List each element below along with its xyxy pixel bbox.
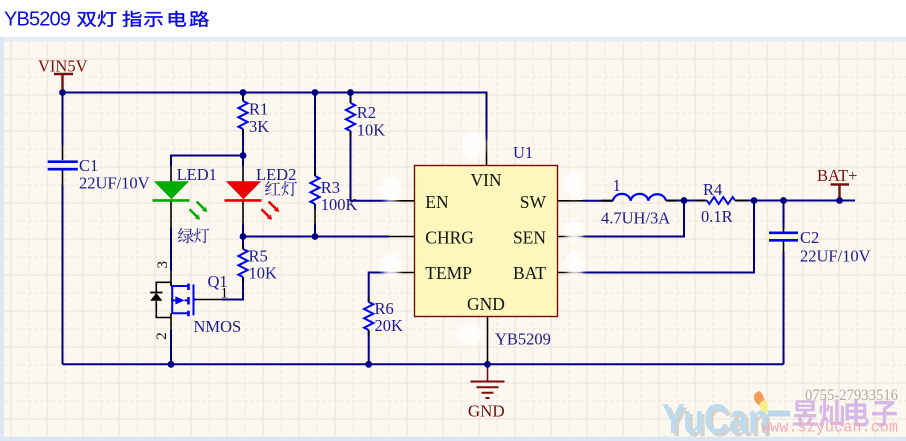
wire GND chip to rail [487, 341, 489, 364]
node LED2 cathode junction [240, 233, 247, 240]
pin stub C1 bottom [62, 171, 64, 186]
wire R4 to BAT+ right end [735, 200, 855, 202]
wire R3 branch from top rail [314, 93, 316, 177]
pin stub Q1 gate pin 1 [196, 299, 222, 301]
svg-text:SW: SW [520, 192, 547, 212]
pin stub TEMP [389, 272, 415, 274]
svg-text:2: 2 [154, 332, 170, 340]
pin ends R3 [314, 171, 316, 177]
wire SEN to inductor-R4 node [583, 201, 684, 237]
wire Q1 source to bottom rail [170, 330, 172, 364]
wire LED2 to CHRG rail [242, 224, 244, 237]
svg-text:20K: 20K [375, 316, 404, 335]
svg-text:YB5209: YB5209 [4, 9, 71, 31]
wire SW to inductor [583, 200, 613, 202]
svg-text:C1: C1 [79, 156, 98, 175]
svg-text:VIN5V: VIN5V [38, 57, 88, 76]
svg-text:C2: C2 [800, 228, 819, 247]
svg-text:NMOS: NMOS [194, 317, 242, 336]
node R6 bottom rail [365, 361, 372, 368]
node R3 bottom [312, 233, 319, 240]
pin stub VIN top [486, 140, 488, 166]
label 红灯 [265, 181, 297, 196]
wire R6 to bottom rail [368, 330, 370, 364]
pin stub C1 top [62, 146, 64, 160]
svg-text:www.szyucan.com: www.szyucan.com [761, 419, 898, 437]
pin stub SW [558, 200, 584, 202]
pin stub LED1 cathode [170, 200, 172, 228]
pin stub EN [389, 200, 415, 202]
wire R1 branch from top rail [242, 93, 244, 102]
svg-text:VIN: VIN [470, 170, 501, 190]
node VIN rail left [59, 89, 66, 96]
wire C2 to bottom rail [783, 252, 785, 364]
wire R2 branch from top rail [350, 93, 352, 104]
title chinese 双灯指示电路 [77, 11, 209, 27]
pin stub C2 bottom [783, 240, 785, 252]
node C2 top [780, 197, 787, 204]
svg-text:GND: GND [467, 294, 505, 314]
svg-text:R4: R4 [703, 180, 722, 199]
wire CHRG rail [243, 236, 389, 238]
wire R5 to gate corner [222, 277, 243, 300]
Q1 body diode [150, 282, 171, 317]
pin ends R5 [242, 244, 244, 283]
wire LED1 to Q1 drain [170, 228, 172, 271]
node inductor-R4 [681, 197, 688, 204]
wire R5 branch [242, 237, 244, 250]
wire inductor to R4 [666, 200, 705, 202]
svg-text:YB5209: YB5209 [495, 330, 551, 349]
wire R3 bottom to CHRG rail [314, 204, 316, 209]
resistor R4 [701, 180, 735, 226]
svg-text:BAT: BAT [513, 263, 546, 283]
wire BAT to R4 right node [583, 201, 754, 273]
wire R1 to LED junction [242, 129, 244, 156]
svg-text:BAT+: BAT+ [817, 166, 857, 185]
pin stub CHRG [389, 236, 415, 238]
pin stub LED1 anode [170, 166, 172, 182]
node R1-LED junction [240, 152, 247, 159]
svg-text:1: 1 [613, 176, 621, 195]
page border strips [0, 37, 906, 41]
pin ends R1 [242, 96, 244, 135]
pin ends R4 [696, 200, 748, 202]
watermark YuCan logo [662, 391, 790, 441]
wire bottom rail [63, 363, 784, 365]
svg-text:0.1R: 0.1R [701, 207, 733, 226]
svg-text:U1: U1 [513, 143, 533, 162]
wire R3 pin to CHRG rail [314, 224, 316, 237]
pin stub R3 bottom [314, 209, 316, 224]
resistor R5 [238, 247, 277, 283]
svg-text:0755-27933516: 0755-27933516 [805, 387, 898, 404]
resistor R2 [346, 103, 385, 140]
power symbol VIN5V [38, 57, 88, 93]
pin stub LED2 cathode [242, 200, 244, 224]
svg-text:LED1: LED1 [177, 165, 217, 184]
node GND rail [484, 361, 491, 368]
svg-text:SEN: SEN [513, 228, 546, 248]
pin stub BAT [558, 272, 584, 274]
svg-text:22UF/10V: 22UF/10V [79, 174, 150, 193]
svg-text:3K: 3K [249, 117, 269, 136]
svg-text:4.7UH/3A: 4.7UH/3A [601, 209, 670, 228]
svg-text:CHRG: CHRG [425, 228, 474, 248]
svg-text:22UF/10V: 22UF/10V [800, 247, 871, 266]
pin ends R6 [368, 297, 370, 336]
node Q1 source rail [168, 361, 175, 368]
wire LED2 branch down [242, 156, 244, 167]
wire LED row to LED1 [171, 156, 243, 167]
inductor pin leads [601, 200, 677, 202]
chip U1 body [415, 166, 558, 317]
node R1 top [240, 89, 247, 96]
inductor L1 [613, 194, 666, 201]
transistor Q1 NMOS [171, 284, 196, 317]
wire R2 bottom to EN [351, 131, 390, 201]
ground symbol GND [468, 364, 505, 420]
svg-text:3: 3 [155, 261, 171, 269]
power symbol BAT+ [817, 166, 857, 201]
pin stub Q1 source pin 2 [170, 318, 172, 331]
pin stub LED2 anode [242, 166, 244, 182]
pin stub Q1 drain pin 3 [170, 271, 172, 286]
wire TEMP [369, 273, 389, 303]
wire C2 top [783, 201, 785, 229]
wire top rail VIN to chip [63, 93, 487, 141]
svg-text:10K: 10K [357, 121, 386, 140]
svg-text:YuCan: YuCan [662, 395, 769, 441]
node R3 top [312, 89, 319, 96]
node R4-BAT wire [751, 197, 758, 204]
node BAT+ wire [836, 197, 843, 204]
wire left rail down to C1 [62, 93, 64, 147]
node R2 top [347, 89, 354, 96]
resistor R6 [364, 299, 403, 335]
pin ends R2 [350, 98, 352, 137]
pin stub C2 top [783, 228, 785, 232]
resistor R3 [310, 176, 357, 214]
label 绿灯 [178, 228, 209, 243]
capacitor C2 [769, 228, 871, 266]
wire C1 to bottom rail [62, 185, 64, 364]
svg-text:TEMP: TEMP [425, 263, 472, 283]
svg-text:1: 1 [221, 286, 229, 302]
capacitor C1 [48, 156, 150, 193]
svg-text:EN: EN [425, 192, 449, 212]
LED1 green [153, 181, 208, 220]
svg-text:LED2: LED2 [256, 165, 296, 184]
pin stub SEN [558, 236, 584, 238]
watermark 昱灿电子 [793, 399, 897, 427]
svg-text:R1: R1 [249, 100, 268, 119]
svg-text:10K: 10K [249, 264, 278, 283]
svg-text:100K: 100K [321, 195, 358, 214]
pin stub GND chip [487, 317, 489, 342]
svg-text:R2: R2 [357, 103, 376, 122]
LED2 red [225, 181, 280, 220]
resistor R1 [238, 100, 269, 137]
svg-text:GND: GND [468, 402, 505, 421]
